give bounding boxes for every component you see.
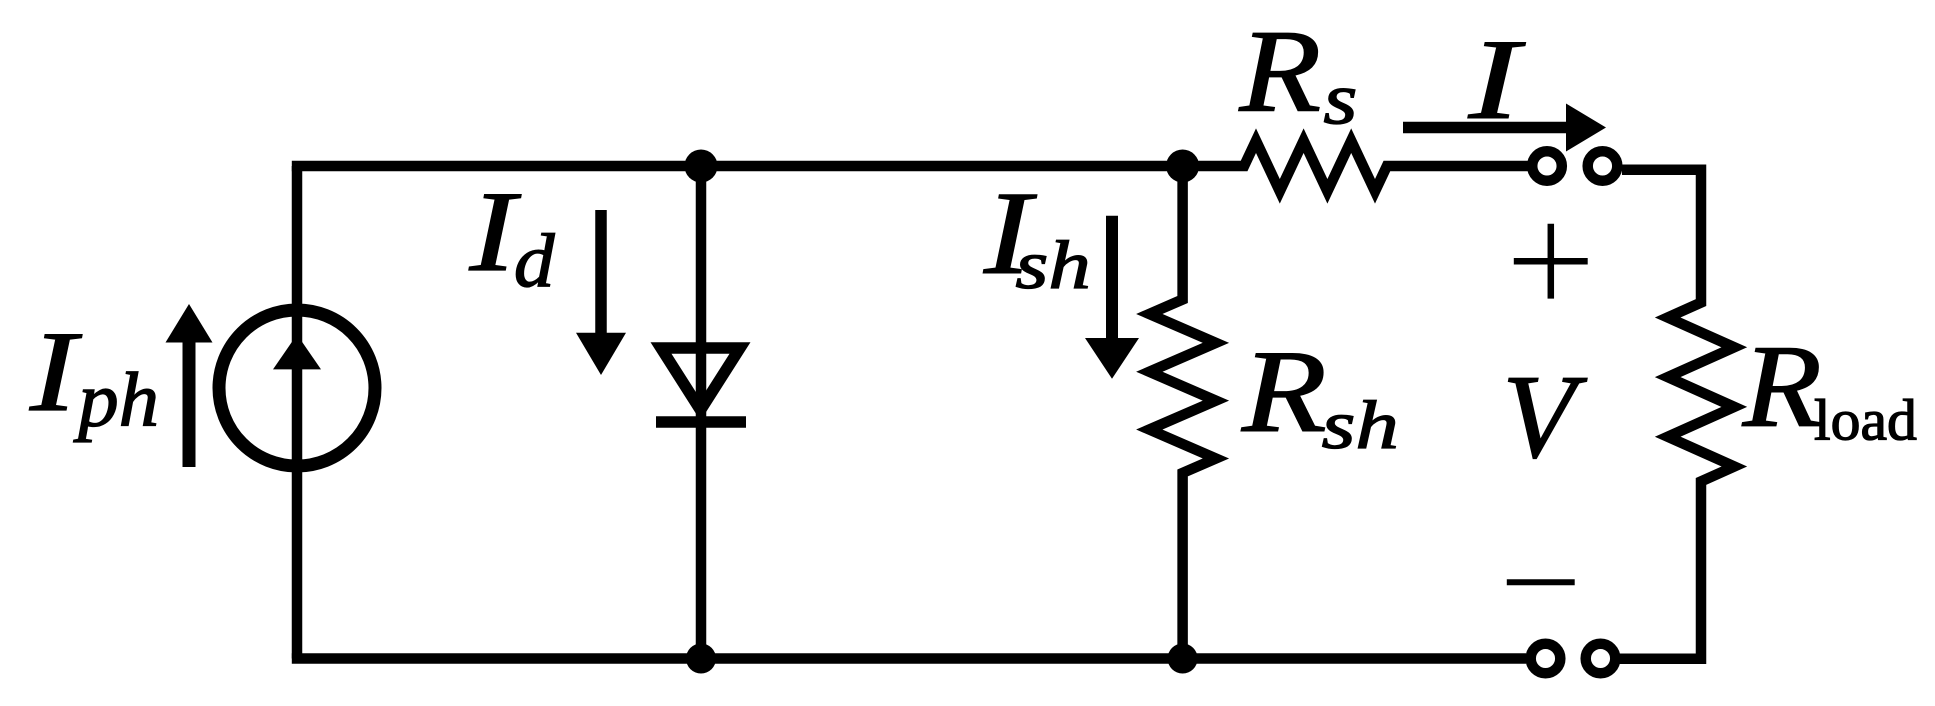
svg-text:ph: ph — [73, 358, 159, 443]
svg-text:s: s — [1323, 59, 1357, 140]
label minus sign — [1507, 579, 1575, 585]
Ish arrow shaft — [1106, 216, 1118, 341]
resistor Rs with leads — [1183, 141, 1528, 192]
svg-text:R: R — [1241, 326, 1327, 457]
wire left branch — [292, 166, 303, 659]
node dot top diode — [685, 150, 718, 183]
Iph arrow shaft — [183, 340, 196, 467]
wire diode branch — [696, 166, 707, 659]
resistor Rsh with leads — [1149, 166, 1216, 659]
node dot bottom Rsh — [1168, 644, 1198, 674]
wire top — [292, 161, 1183, 172]
Ish arrowhead — [1085, 338, 1139, 379]
wire bottom — [292, 653, 1526, 664]
terminal circle bottom minus right — [1586, 644, 1616, 674]
svg-text:I: I — [1468, 16, 1527, 143]
svg-text:R: R — [1742, 321, 1822, 451]
current source internal arrowhead — [273, 335, 321, 370]
label plus sign — [1514, 224, 1588, 299]
svg-text:sh: sh — [1322, 386, 1399, 462]
svg-text:d: d — [514, 219, 555, 303]
svg-text:load: load — [1814, 388, 1917, 452]
svg-text:sh: sh — [1015, 227, 1090, 304]
terminal circle top plus right — [1588, 151, 1618, 181]
resistor Rload with leads and stubs — [1619, 170, 1734, 659]
I arrow shaft — [1403, 122, 1570, 134]
current source circle Iph — [219, 310, 375, 466]
Id arrow shaft — [595, 210, 607, 336]
svg-text:I: I — [29, 307, 82, 435]
terminal circle top plus left — [1532, 151, 1562, 181]
node dot top Rsh — [1166, 150, 1199, 183]
diode D cathode bar — [656, 416, 746, 428]
I arrowhead — [1566, 104, 1606, 152]
node dot bottom diode — [686, 644, 716, 674]
terminal circle bottom minus left — [1531, 644, 1561, 674]
Iph arrowhead — [166, 304, 213, 343]
diode D triangle — [661, 348, 740, 410]
Id arrowhead — [576, 333, 626, 375]
svg-text:V: V — [1502, 350, 1587, 483]
svg-text:R: R — [1238, 7, 1321, 137]
